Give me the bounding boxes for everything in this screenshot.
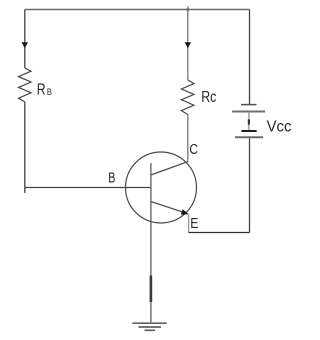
- transistor collector diagonal: [151, 162, 188, 175]
- ground: top bar: [132, 322, 166, 324]
- ground: bottom bar: [145, 329, 156, 331]
- battery Vcc cell 2 short plate: [242, 130, 257, 132]
- wire: emitter horizontal to right branch: [189, 232, 250, 234]
- wire: collector vertical: [187, 115, 189, 162]
- transistor base bar continuing as emitter-to-ground wire: [150, 163, 152, 322]
- svg-text:Rc: Rc: [201, 89, 216, 106]
- svg-text:B: B: [108, 170, 115, 186]
- wire: Rc branch stub and upper segment: [187, 6, 189, 80]
- svg-text:RB: RB: [37, 81, 52, 98]
- dark mark on battery connector: [248, 119, 250, 124]
- transistor Q1 circle: [126, 152, 197, 223]
- node: junction of Rc branch with top rail: [186, 8, 189, 11]
- wire: right branch upper: [249, 10, 251, 105]
- battery internal connector: [248, 112, 250, 132]
- resistor RB: [19, 68, 32, 102]
- battery Vcc cell 1 long plate: [232, 111, 265, 113]
- battery Vcc cell 2 long plate: [235, 136, 263, 138]
- wire: base horizontal: [25, 187, 151, 189]
- wire: top rail: [25, 9, 250, 11]
- wire: left branch upper: [24, 10, 26, 69]
- thick dark segment on ground wire: [150, 276, 153, 303]
- transistor emitter diagonal: [151, 202, 184, 213]
- current arrow into RB: [22, 42, 28, 48]
- ground: middle bar: [139, 326, 162, 328]
- battery Vcc cell 1 short plate: [241, 104, 257, 106]
- svg-text:E: E: [190, 216, 198, 232]
- wire: right branch lower: [249, 137, 251, 232]
- wire: emitter drop at E: [188, 215, 190, 233]
- svg-text:Vcc: Vcc: [267, 119, 292, 136]
- svg-text:C: C: [189, 142, 198, 158]
- current arrow into Rc: [185, 42, 191, 48]
- emitter arrowhead: [181, 209, 189, 214]
- wire: left branch lower: [24, 102, 26, 193]
- resistor Rc: [181, 80, 194, 115]
